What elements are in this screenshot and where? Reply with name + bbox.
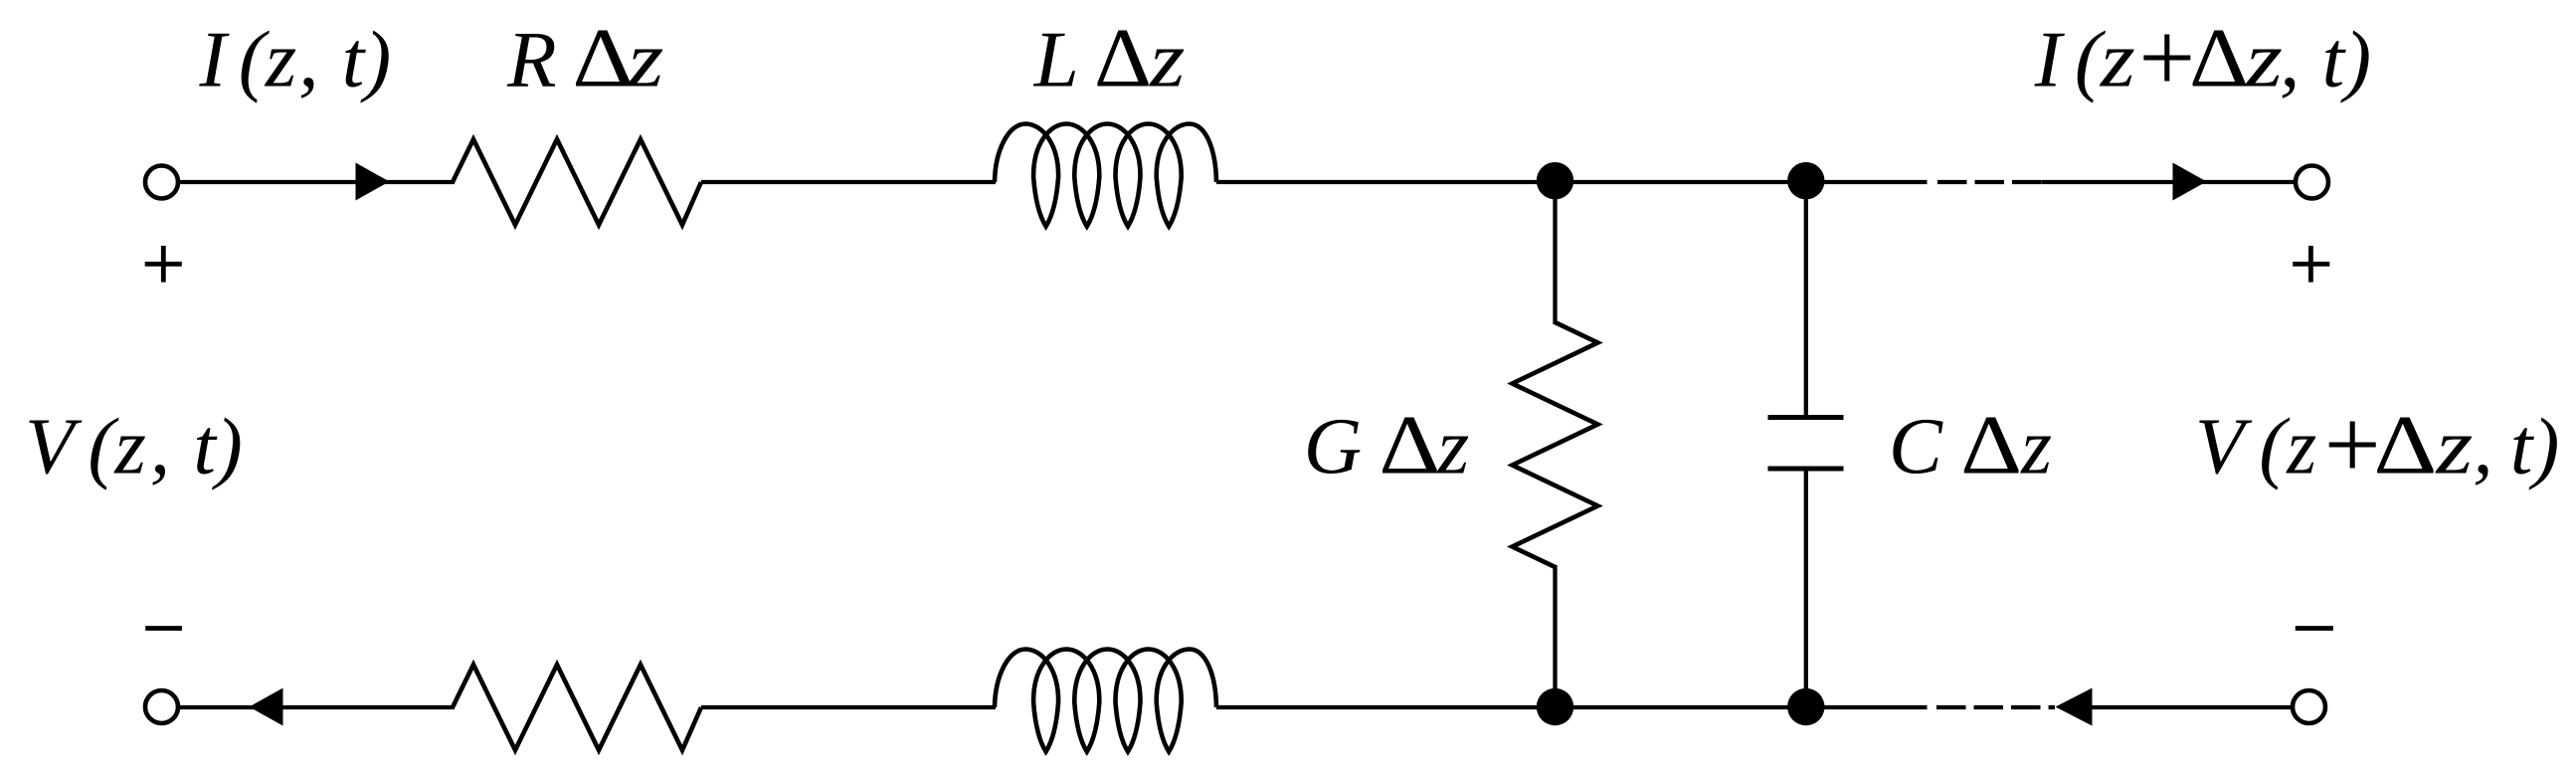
dashed wire segment top — [1937, 180, 2042, 184]
plus sign left — [145, 246, 182, 283]
C branch lead bottom — [1804, 469, 1808, 707]
wire node B to dashed break — [1806, 180, 1928, 184]
wire arrow to terminal right bottom — [2093, 705, 2294, 709]
terminal left bottom — [145, 690, 178, 723]
terminal left top — [145, 166, 178, 199]
wire between R and L — [701, 180, 996, 184]
node C (bottom of G branch) — [1537, 688, 1573, 725]
wire between bottom R and L — [701, 705, 996, 709]
resistor bottom (unlabeled) — [453, 665, 701, 750]
wire node C to node D — [1556, 705, 1806, 709]
svg-text:L Δz: L Δz — [1033, 12, 1186, 105]
node D (bottom of C branch) — [1787, 688, 1824, 725]
return arrow bottom-right — [2056, 688, 2093, 726]
capacitor C dz bottom plate — [1768, 467, 1844, 472]
svg-text:V (z+Δz, t): V (z+Δz, t) — [2195, 389, 2559, 500]
wire L to node A — [1216, 180, 1555, 184]
dashed wire segment bottom — [1936, 705, 2055, 709]
resistor R dz — [453, 139, 701, 225]
terminal right bottom — [2293, 690, 2325, 723]
current arrow I(z+dz,t) — [2173, 163, 2207, 201]
minus sign right — [2296, 626, 2333, 631]
svg-text:R Δz: R Δz — [506, 12, 663, 105]
plus sign right — [2293, 246, 2329, 283]
wire bottom L to node C — [1216, 705, 1555, 709]
G branch lead bottom — [1553, 565, 1557, 707]
wire bottom-left segment — [178, 705, 455, 709]
C branch lead top — [1804, 182, 1808, 418]
wire node A to node B — [1556, 180, 1806, 184]
inductor bottom (unlabeled) — [995, 650, 1216, 752]
node B (top of C branch) — [1787, 162, 1824, 199]
inductor L dz — [995, 124, 1216, 227]
wire top-left segment — [178, 180, 455, 184]
svg-text:V (z, t): V (z, t) — [25, 402, 243, 491]
wire node D to dashed break bottom — [1806, 705, 1928, 709]
return arrow bottom-left — [250, 688, 283, 726]
resistor G dz (vertical) — [1513, 322, 1598, 567]
G branch lead top — [1553, 182, 1557, 324]
wire dashed to terminal right top — [2042, 180, 2296, 184]
minus sign left — [145, 626, 182, 631]
svg-text:I (z, t): I (z, t) — [199, 15, 392, 104]
terminal right top — [2296, 166, 2328, 199]
svg-text:I (z+Δz, t): I (z+Δz, t) — [2034, 2, 2371, 113]
svg-text:C Δz: C Δz — [1889, 399, 2052, 492]
capacitor C dz top plate — [1768, 415, 1844, 420]
node A (top of G branch) — [1537, 162, 1573, 199]
svg-text:G Δz: G Δz — [1304, 399, 1470, 492]
current arrow I(z,t) — [356, 163, 390, 201]
